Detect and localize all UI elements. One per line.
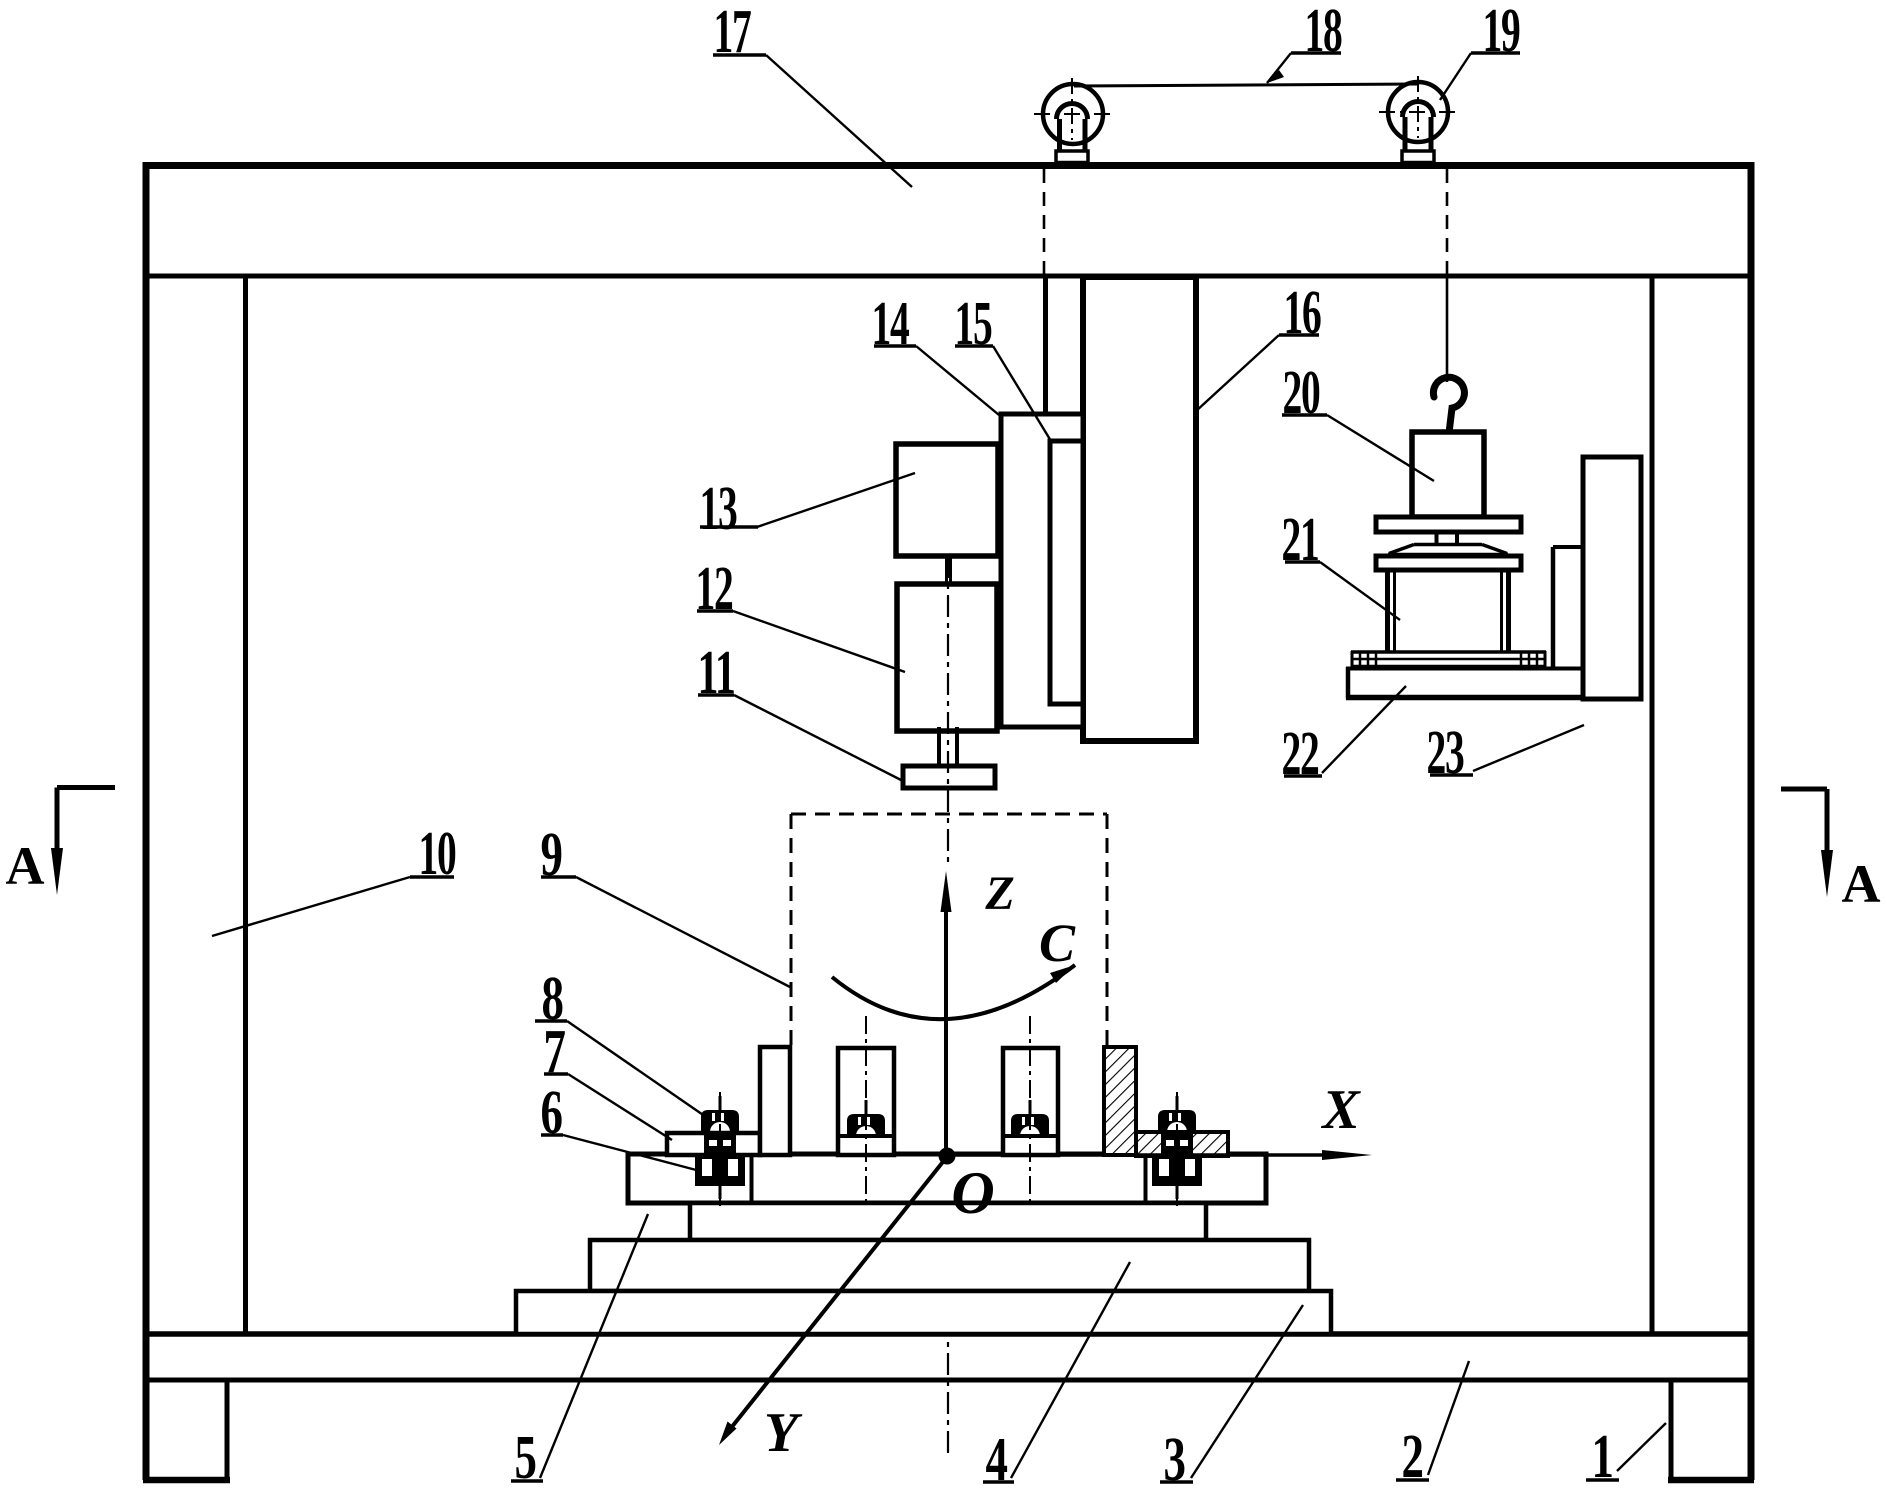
base flange 22 bbox=[1351, 651, 1546, 667]
bracket shelf 22 bbox=[1346, 667, 1583, 699]
Z axis bbox=[941, 871, 952, 1158]
svg-text:O: O bbox=[951, 1160, 994, 1226]
svg-text:X: X bbox=[1320, 1079, 1361, 1141]
bracket plate 23 bbox=[1583, 457, 1641, 699]
T-nut below table right bbox=[1152, 1157, 1202, 1199]
hatched flange bbox=[1136, 1132, 1228, 1156]
pulley 19 left unit bbox=[1034, 78, 1112, 163]
label 12 bbox=[696, 555, 906, 672]
label 22 bbox=[1282, 686, 1407, 788]
svg-text:Z: Z bbox=[984, 867, 1014, 920]
svg-text:21: 21 bbox=[1282, 506, 1319, 574]
motor 13 bbox=[896, 444, 998, 556]
clamp post left bbox=[760, 1047, 790, 1155]
top beam bottom edge bbox=[143, 274, 1754, 279]
C rotation arc bbox=[832, 965, 1075, 1019]
lower plate of load cell bbox=[1376, 556, 1521, 570]
label 19 bbox=[1440, 0, 1520, 100]
table internal line left bbox=[750, 1154, 754, 1203]
clamp plate 7 left bbox=[667, 1133, 760, 1155]
hatched stop block bbox=[1104, 1047, 1136, 1155]
svg-text:18: 18 bbox=[1305, 0, 1342, 65]
svg-text:Y: Y bbox=[764, 1402, 803, 1464]
floor beam 2 bottom edge bbox=[143, 1378, 1754, 1383]
column ram 16 bbox=[1083, 277, 1196, 741]
svg-text:6: 6 bbox=[541, 1079, 563, 1147]
label 23 bbox=[1427, 719, 1585, 787]
stop post 2 bbox=[838, 1048, 894, 1155]
svg-text:20: 20 bbox=[1283, 359, 1320, 427]
frame right wall bbox=[1748, 162, 1755, 1480]
label 2 bbox=[1396, 1361, 1469, 1491]
T-nut 6 below table left bbox=[695, 1157, 745, 1199]
base step 4 upper bbox=[690, 1203, 1206, 1240]
right foot 1 bbox=[1668, 1380, 1754, 1483]
floor beam 2 top edge bbox=[143, 1331, 1754, 1337]
label 14 bbox=[872, 290, 1000, 415]
svg-text:9: 9 bbox=[541, 821, 562, 889]
left foot bbox=[143, 1380, 230, 1483]
right inner column bbox=[1650, 276, 1655, 1334]
nut on post 3 bbox=[1011, 1100, 1049, 1136]
spindle shaft bbox=[939, 727, 957, 766]
pulley 19 right unit bbox=[1379, 76, 1457, 163]
label 15 bbox=[955, 290, 1052, 441]
spindle centerline upper bbox=[947, 556, 949, 868]
section arrow A left bbox=[51, 788, 115, 896]
svg-text:13: 13 bbox=[700, 475, 737, 543]
stop post 3 bbox=[1003, 1048, 1058, 1155]
svg-text:3: 3 bbox=[1164, 1426, 1185, 1494]
base step 4 middle bbox=[590, 1240, 1309, 1291]
label 20 bbox=[1282, 359, 1434, 481]
svg-text:A: A bbox=[6, 836, 45, 896]
svg-text:12: 12 bbox=[696, 555, 733, 623]
left inner column bbox=[243, 276, 248, 1334]
shaft between motor and cartridge bbox=[947, 556, 951, 584]
label 4 bbox=[983, 1262, 1130, 1494]
bracket arm step bbox=[1553, 547, 1583, 668]
svg-text:C: C bbox=[1039, 913, 1076, 973]
label 5 bbox=[511, 1214, 648, 1492]
nut on hatched flange bbox=[1158, 1096, 1196, 1156]
nut 8 on left flange bbox=[701, 1096, 739, 1156]
svg-text:19: 19 bbox=[1483, 0, 1520, 65]
X axis bbox=[946, 1150, 1372, 1160]
tool disc 11 bbox=[903, 766, 995, 788]
label 10 bbox=[212, 820, 456, 936]
cone bbox=[1388, 545, 1508, 555]
svg-text:15: 15 bbox=[955, 290, 992, 358]
base step 3 lower bbox=[516, 1291, 1331, 1334]
svg-text:4: 4 bbox=[986, 1426, 1008, 1494]
svg-text:22: 22 bbox=[1282, 720, 1319, 788]
weight 20 bbox=[1412, 432, 1484, 517]
table internal line right bbox=[1144, 1154, 1148, 1203]
neck bbox=[1437, 532, 1458, 544]
label 9 bbox=[541, 821, 791, 987]
work table 5 bbox=[628, 1154, 1266, 1203]
label 18 bbox=[1267, 0, 1342, 83]
label 1 bbox=[1586, 1423, 1666, 1491]
frame top beam 17 bbox=[143, 162, 1754, 169]
label 17 bbox=[713, 0, 912, 187]
hook bbox=[1433, 377, 1464, 433]
slide plate 15 bbox=[1050, 441, 1083, 704]
Y axis bbox=[719, 1158, 946, 1445]
label 21 bbox=[1282, 506, 1401, 620]
svg-text:16: 16 bbox=[1284, 279, 1322, 347]
belt 18 bbox=[1074, 84, 1419, 86]
svg-text:A: A bbox=[1842, 854, 1881, 914]
label 3 bbox=[1160, 1305, 1303, 1494]
nut on post 2 bbox=[847, 1100, 885, 1136]
workpiece 9 dashed bbox=[791, 814, 1107, 1047]
label 7 bbox=[544, 1018, 673, 1140]
svg-text:7: 7 bbox=[544, 1018, 566, 1086]
load cell 21 bbox=[1388, 570, 1509, 652]
section arrow A right bbox=[1781, 789, 1833, 897]
hidden belt line in beam (left) bbox=[1043, 169, 1046, 276]
label 11 bbox=[698, 639, 904, 781]
hidden rope line in beam (right) bbox=[1446, 169, 1449, 276]
belt housing left edge bbox=[1043, 277, 1048, 414]
label 13 bbox=[700, 473, 916, 543]
label 6 bbox=[541, 1079, 701, 1171]
spindle cartridge 12 bbox=[897, 584, 997, 731]
label 16 bbox=[1195, 279, 1321, 412]
spindle centerline lower bbox=[947, 1158, 949, 1458]
svg-text:23: 23 bbox=[1427, 719, 1464, 787]
origin dot O bbox=[939, 1148, 956, 1165]
rope to hook bbox=[1446, 276, 1449, 382]
frame left wall bbox=[143, 162, 150, 1480]
svg-text:11: 11 bbox=[698, 639, 735, 707]
label 8 bbox=[535, 965, 709, 1119]
bolt centerlines bbox=[720, 1016, 1177, 1207]
svg-text:14: 14 bbox=[872, 290, 910, 358]
upper plate of load cell bbox=[1376, 517, 1521, 532]
spindle head box 14 bbox=[1001, 414, 1083, 727]
